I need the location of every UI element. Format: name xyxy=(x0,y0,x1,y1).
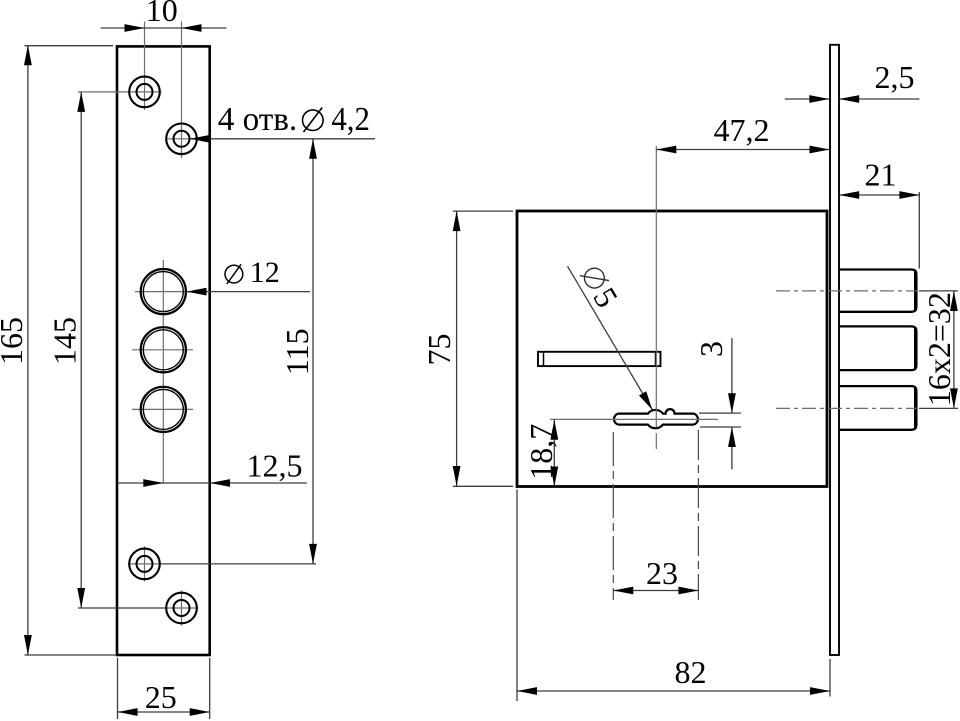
leader for d12 xyxy=(187,291,311,293)
dim 21 right ext xyxy=(918,192,920,269)
centerline through screw hole 2 (ext for dim 10) xyxy=(181,22,183,159)
arrow 75 top xyxy=(453,211,461,231)
screw hole 1 xyxy=(129,77,160,108)
crosshair screw hole 4 xyxy=(181,591,183,626)
svg-text:145: 145 xyxy=(47,317,83,365)
ext 23 left (centerline style) xyxy=(612,432,614,600)
faceplate edge-on xyxy=(830,45,839,655)
arrow dim12,5 right xyxy=(210,479,230,487)
dim 25 right ext xyxy=(209,658,211,719)
crosshair big hole 1 xyxy=(135,291,191,293)
arrow dim165 bottom xyxy=(24,635,32,655)
bolt 2 xyxy=(839,326,916,370)
screw hole 3 xyxy=(129,549,160,580)
arrow 3 bottom xyxy=(728,427,736,447)
svg-text:25: 25 xyxy=(145,679,177,715)
diameter sign 12 xyxy=(225,265,243,283)
leader d5 xyxy=(568,266,653,410)
arrow dim115 bottom xyxy=(309,544,317,564)
arrow leader 4otv xyxy=(190,135,210,143)
leader from screw hole 3 (ext for 115) xyxy=(161,563,316,565)
svg-text:12,5: 12,5 xyxy=(247,447,303,483)
arrow 21 right xyxy=(899,191,919,199)
arrow 47,2 right xyxy=(810,146,830,154)
arrow leader d12 xyxy=(187,288,207,296)
dim 25 line xyxy=(118,711,210,713)
svg-text:21: 21 xyxy=(865,157,897,193)
arrow dim25 left xyxy=(118,708,138,716)
crosshair big hole 2 xyxy=(132,349,193,351)
arrow dim145 top xyxy=(77,92,85,112)
bolt3 center right ext xyxy=(919,407,958,409)
arrow 16x2 top xyxy=(950,291,958,311)
svg-text:4,2: 4,2 xyxy=(331,101,370,138)
dim 3 line below xyxy=(731,427,733,469)
ext 23 right (centerline style) xyxy=(697,430,699,600)
arrow 18,7 bottom xyxy=(550,467,558,487)
big hole 2 (d12) xyxy=(141,327,186,372)
dim 75 top ext xyxy=(453,210,513,212)
follower slot xyxy=(538,352,661,366)
crosshair screw hole 3 xyxy=(144,547,146,582)
centerline bolt 3 xyxy=(776,407,917,409)
dim 165 line xyxy=(27,45,29,655)
dim 21 line xyxy=(839,194,919,196)
arrow 82 left xyxy=(517,687,537,695)
dim 16x2=32 line xyxy=(953,291,955,408)
crosshair big hole 3 xyxy=(132,408,193,410)
arrow dim12,5 left xyxy=(143,479,163,487)
arrow leader d5 xyxy=(639,391,652,410)
svg-text:16x2=32: 16x2=32 xyxy=(921,292,957,406)
dim 82 line xyxy=(517,690,830,692)
dim 145 line xyxy=(80,92,82,608)
bolt1 center right ext xyxy=(919,290,958,292)
arrow dim165 top xyxy=(24,45,32,65)
svg-text:2,5: 2,5 xyxy=(875,59,915,95)
dim 2,5 left line xyxy=(785,98,830,100)
dim 75 bottom ext xyxy=(453,485,513,487)
crosshair screw hole 1 xyxy=(78,91,162,93)
arrow 18,7 top xyxy=(550,420,558,440)
centerline through big holes xyxy=(162,260,164,483)
arrow dim145 bottom xyxy=(77,588,85,608)
dim 23 line xyxy=(613,590,698,592)
dim 3 top ext xyxy=(699,412,741,414)
svg-text:3: 3 xyxy=(693,341,729,357)
diameter sign 4,2 xyxy=(303,110,324,131)
arrow dim10 right xyxy=(182,24,202,32)
arrow 3 top xyxy=(728,393,736,413)
horizontal centerline keyhole xyxy=(550,418,718,420)
dim 47,2 line xyxy=(656,149,829,151)
lock body outline xyxy=(517,211,827,487)
svg-text:75: 75 xyxy=(421,334,457,366)
screw hole 2 xyxy=(166,124,197,155)
big hole 3 (d12) xyxy=(141,387,186,432)
dim 165 top ext xyxy=(25,45,114,47)
arrow 2,5 left xyxy=(809,95,829,103)
dim 75 line xyxy=(456,211,458,486)
arrow 47,2 left xyxy=(656,146,676,154)
dim 12,5 line xyxy=(118,482,307,484)
dim 82 right ext xyxy=(829,659,831,697)
arrow dim10 left xyxy=(125,24,145,32)
centerline bolt 1 xyxy=(776,290,917,292)
dim 82 left ext xyxy=(516,490,518,702)
label d5 rotated xyxy=(574,260,626,313)
arrow 16x2 bottom xyxy=(950,388,958,408)
dim 145 bottom ext xyxy=(78,607,166,609)
centerline through screw hole 1 (ext for dim 10) xyxy=(144,22,146,111)
keyhole xyxy=(614,409,698,428)
svg-text:10: 10 xyxy=(146,0,178,28)
svg-text:165: 165 xyxy=(0,317,29,365)
big hole 1 (d12) xyxy=(141,269,186,314)
dim 18,7 line xyxy=(553,420,555,487)
arrow dim25 right xyxy=(190,708,210,716)
bolt 1 xyxy=(839,270,916,312)
arrow 23 right xyxy=(678,587,698,595)
dim 3 bottom ext xyxy=(700,426,741,428)
dim 115 line xyxy=(312,139,314,564)
faceplate outline xyxy=(117,46,210,655)
arrow 21 left xyxy=(839,191,859,199)
svg-text:18,7: 18,7 xyxy=(523,424,559,480)
arrow 2,5 right xyxy=(839,95,859,103)
dim 165 bottom ext xyxy=(25,654,116,656)
svg-text:115: 115 xyxy=(279,328,315,375)
dim 10 line xyxy=(101,27,227,29)
svg-text:82: 82 xyxy=(675,654,707,690)
arrow dim115 top xyxy=(309,139,317,159)
crosshair screw hole 2 xyxy=(165,138,199,140)
svg-text:47,2: 47,2 xyxy=(714,112,770,148)
svg-text:12: 12 xyxy=(250,256,280,289)
dim 3 line above xyxy=(731,338,733,413)
dim 25 left ext xyxy=(117,658,119,719)
dim 2,5 right line xyxy=(839,98,919,100)
arrow 23 left xyxy=(613,587,633,595)
arrow 75 bottom xyxy=(453,466,461,486)
svg-text:23: 23 xyxy=(646,555,678,591)
vertical centerline keyhole / ext 47,2 xyxy=(655,146,657,428)
arrow 82 right xyxy=(810,687,830,695)
svg-text:4 отв.: 4 отв. xyxy=(218,101,298,138)
screw hole 4 xyxy=(166,593,197,624)
bolt 3 xyxy=(839,386,916,430)
leader for 4 holes d4,2 xyxy=(190,138,375,140)
